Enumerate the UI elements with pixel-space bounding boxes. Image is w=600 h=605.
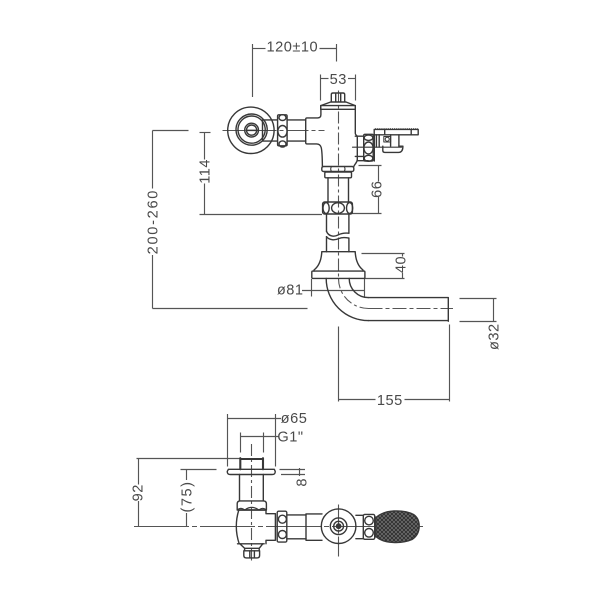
svg-text:92: 92 [130, 484, 146, 501]
svg-text:114: 114 [198, 159, 214, 184]
svg-text:ø65: ø65 [281, 411, 308, 427]
svg-text:53: 53 [330, 72, 347, 88]
svg-text:(75): (75) [179, 481, 195, 513]
svg-text:8: 8 [295, 478, 311, 487]
svg-text:155: 155 [377, 393, 403, 409]
svg-text:ø32: ø32 [486, 323, 502, 350]
svg-text:120±10: 120±10 [267, 40, 319, 56]
svg-text:ø81: ø81 [277, 282, 304, 298]
svg-text:66: 66 [370, 181, 386, 198]
svg-text:200-260: 200-260 [145, 189, 161, 254]
svg-text:G1": G1" [277, 430, 303, 446]
svg-text:40: 40 [394, 256, 410, 273]
